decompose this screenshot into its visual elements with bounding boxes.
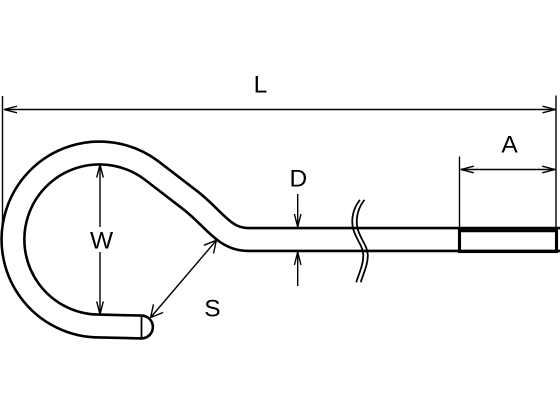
- L arrow left: [4, 106, 17, 113]
- svg-text:A: A: [501, 132, 518, 159]
- L extension left: [2, 96, 4, 225]
- hook wire outline (black body): [13, 153, 560, 327]
- svg-text:W: W: [90, 228, 114, 255]
- W arrow up: [97, 165, 104, 178]
- A arrow right: [542, 166, 555, 173]
- D lower arrow: [297, 252, 299, 286]
- break squiggle: [352, 201, 368, 282]
- W dimension line lower: [99, 252, 101, 314]
- S dimension line: [151, 240, 217, 317]
- dimension graphics: [3, 96, 557, 318]
- hook wire inner white: [13, 153, 560, 327]
- svg-text:L: L: [254, 72, 268, 99]
- L arrow right: [543, 106, 556, 113]
- A extension left: [459, 157, 461, 231]
- A dimension line: [461, 169, 555, 171]
- D upper arrow: [297, 194, 299, 227]
- svg-text:D: D: [290, 166, 308, 193]
- A arrow left: [461, 166, 474, 173]
- W arrow down: [97, 301, 104, 314]
- S arrow lower: [151, 304, 164, 317]
- threaded section rectangle: [460, 231, 557, 252]
- S arrow upper: [204, 240, 217, 253]
- svg-text:S: S: [204, 296, 220, 323]
- cap end face line: [141, 317, 143, 338]
- L/A extension right: [555, 96, 557, 229]
- L dimension line: [4, 109, 556, 111]
- W dimension line upper: [99, 165, 101, 227]
